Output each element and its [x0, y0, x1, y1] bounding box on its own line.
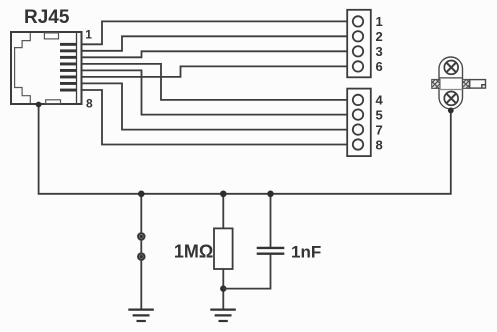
spark gap electrode upper [137, 233, 145, 241]
svg-text:1nF: 1nF [291, 242, 321, 261]
junction node on bus (resistor) [220, 191, 227, 198]
wire resistor branch [222, 194, 224, 229]
wire capacitor branch top [270, 194, 272, 247]
wire resistor to ground [222, 269, 224, 310]
RJ45 pins 1-8 [60, 43, 77, 92]
clamp right hatched pad [463, 79, 470, 88]
capacitor C1 1nF [257, 248, 285, 254]
clamp left hatched pad [432, 79, 440, 88]
shield clamp W1 [439, 57, 463, 109]
svg-text:3: 3 [376, 44, 383, 59]
wire pin1 to terminal 1 [82, 21, 348, 44]
svg-text:7: 7 [376, 123, 383, 138]
wire spark-gap branch [140, 194, 142, 310]
svg-text:8: 8 [86, 97, 93, 111]
svg-text:1: 1 [376, 14, 383, 29]
shield bus wire from RJ45 to clamp [39, 105, 451, 194]
svg-text:6: 6 [376, 59, 383, 74]
ground G1 [128, 310, 154, 321]
svg-text:1: 1 [85, 28, 92, 42]
resistor R1 1Mohm [214, 228, 233, 269]
junction node on bus (spark gap) [138, 191, 145, 198]
svg-text:RJ45: RJ45 [24, 7, 70, 28]
RJ45 connector J1 [11, 32, 82, 104]
terminal block TB2 (terminals 4,5,7,8) [347, 89, 371, 157]
wire pin4 to terminal 4 [82, 64, 348, 100]
svg-text:8: 8 [376, 138, 383, 153]
wire pin5 to terminal 5 [82, 70, 348, 114]
svg-text:4: 4 [376, 93, 384, 108]
junction dot at clamp [448, 108, 454, 114]
wire pin7 to terminal 7 [82, 83, 348, 129]
wire capacitor bottom to resistor node [223, 255, 270, 289]
wire pin6 to terminal 6 [82, 66, 348, 77]
svg-text:2: 2 [376, 29, 383, 44]
junction node below resistor [220, 285, 226, 291]
spark gap electrode lower [137, 253, 145, 261]
svg-text:5: 5 [376, 108, 383, 123]
junction node on bus (capacitor) [267, 191, 274, 198]
clamp bar [470, 80, 486, 89]
wire pin3 to terminal 3 [82, 51, 348, 57]
terminal block TB1 (terminals 1,2,3,6) [347, 10, 371, 78]
junction dot at RJ45 shield [36, 102, 42, 108]
svg-text:1MΩ: 1MΩ [174, 241, 213, 261]
ground G2 [210, 310, 236, 321]
wire pin8 to terminal 8 [82, 90, 348, 145]
wire pin2 to terminal 2 [82, 36, 348, 51]
